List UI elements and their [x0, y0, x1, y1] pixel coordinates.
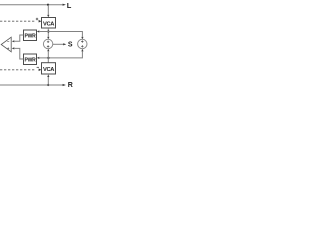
node: right summer	[78, 39, 87, 48]
wire: R bus tap up into VCA2 with arrow	[47, 74, 49, 85]
block: PWR P1	[24, 30, 37, 41]
arrow: control into VCA1	[39, 20, 42, 23]
svg-text:PWR: PWR	[25, 57, 37, 63]
control: dashed gain line to VCA2	[0, 69, 36, 71]
arrow: top tap into PWR1	[37, 30, 40, 32]
label: - control polarity at VCA2	[37, 66, 39, 68]
block: VCA U2	[42, 63, 56, 74]
wire: VCA1 output down to sum nodes with arrow	[47, 28, 49, 39]
svg-text:L: L	[67, 1, 72, 10]
label: + control polarity at VCA1	[36, 18, 38, 20]
svg-text:VCA: VCA	[43, 21, 54, 27]
wire: L tap down into VCA1 with arrow	[47, 5, 49, 18]
svg-text:S: S	[68, 42, 73, 49]
wire: PWR2 output to diff amp with arrow	[12, 47, 24, 59]
arrow: control into VCA2	[39, 69, 42, 72]
wire: top tap bus across to right sum node	[39, 32, 82, 37]
svg-text:R: R	[68, 82, 73, 89]
wire: bottom tap bus across to right sum node	[39, 51, 82, 58]
wire: PWR1 output to diff amp with arrow	[12, 35, 24, 42]
arrow: top tap into right sum node	[81, 37, 83, 40]
svg-text:VCA: VCA	[43, 67, 54, 73]
junction: L bus tap dot	[47, 4, 49, 6]
op-amp: differential amplifier A1	[1, 37, 11, 52]
wire: S output with arrowhead	[53, 43, 67, 45]
block: VCA U1	[42, 18, 56, 29]
wire: top L bus with output arrowhead	[0, 4, 66, 6]
arrow: bottom tap into PWR2	[37, 57, 40, 59]
wire: VCA2 output up to sum nodes with arrow	[47, 49, 49, 63]
svg-text:PWR: PWR	[25, 33, 37, 39]
junction: R bus tap dot	[47, 84, 49, 86]
arrow: bottom tap into right sum node	[81, 49, 83, 52]
control: dashed gain line to VCA1	[0, 20, 36, 22]
block: PWR P2	[24, 54, 37, 65]
junction: VCA1 output tap dot	[47, 30, 49, 32]
node: left summer S=L+R	[43, 39, 52, 48]
wire: bottom R bus with output arrowhead	[0, 84, 66, 86]
junction: VCA2 output tap dot	[47, 57, 49, 59]
